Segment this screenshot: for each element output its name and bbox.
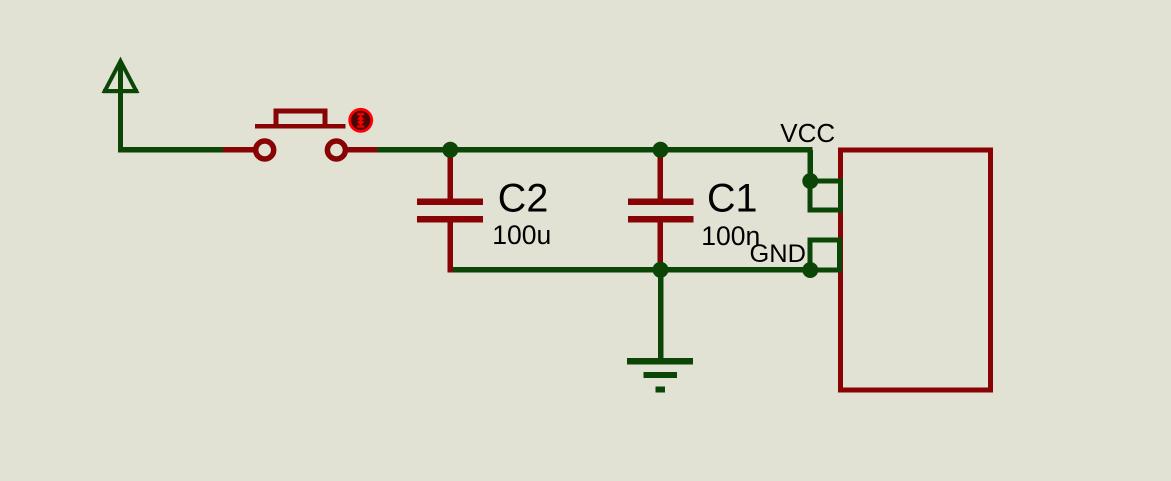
wire VCC drop [808,150,814,181]
wire power to switch [118,147,225,153]
wire ground stem [658,270,664,361]
pushbutton actuate icon [350,109,372,131]
wire switch pin 1 [223,147,256,153]
node junction C2 top [442,142,458,158]
wire switch pin 2 [345,147,377,153]
svg-text:VCC: VCC [780,118,835,148]
node VCC pin dot [802,173,818,189]
wire VCC pin loop [810,181,840,210]
svg-text:100u: 100u [492,220,551,250]
wire GND pin loop [810,240,840,270]
capacitor C1 [628,150,694,267]
ground [627,358,693,393]
wire bottom rail [453,267,810,273]
power terminal [103,61,138,150]
svg-text:C2: C2 [498,177,549,221]
node junction C1 bottom [653,262,669,278]
node junction GND pin [802,262,818,278]
capacitor C2 [417,150,483,273]
svg-text:C1: C1 [707,177,758,221]
node junction C1 top [653,142,669,158]
pushbutton pad left [256,141,274,159]
pushbutton cap [276,111,325,124]
chip U1 [841,150,991,390]
pushbutton contact bar [255,124,346,129]
pushbutton pad right [327,141,345,159]
svg-text:GND: GND [750,240,806,268]
wire switch to VCC corner [377,147,813,153]
